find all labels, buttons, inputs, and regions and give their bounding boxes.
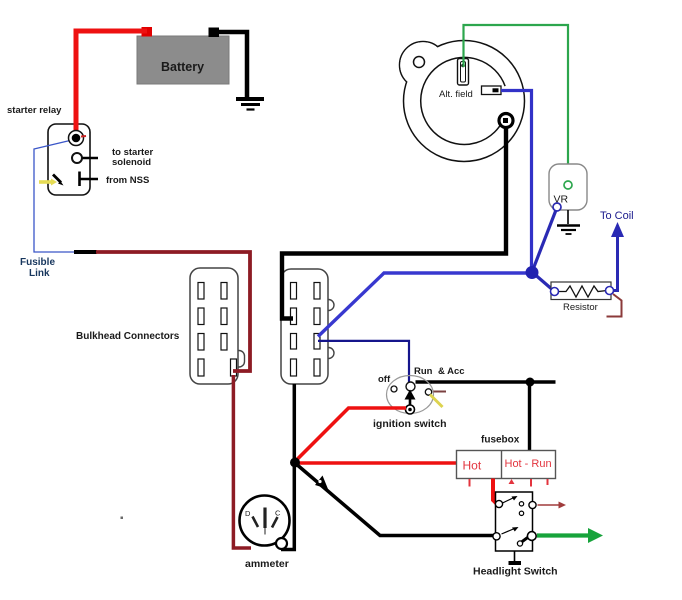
yellow arrow indicator [39, 179, 57, 186]
wire red battery to starter relay [76, 31, 147, 136]
label Alt. field [439, 89, 473, 100]
svg-text:C: C [275, 509, 281, 518]
fusebox terminal ticks [470, 479, 548, 487]
svg-text:D: D [245, 509, 251, 518]
voltage regulator VR [549, 164, 587, 210]
label Hot - Run [505, 458, 552, 470]
svg-text:Run: Run [414, 366, 433, 377]
ignition input terminal (bullseye) [406, 405, 415, 414]
label Headlight Switch [473, 566, 558, 578]
headlight switch park output terminal [529, 501, 536, 508]
svg-text:Fusible: Fusible [20, 257, 55, 268]
yellow acc pointer [430, 395, 443, 408]
resistor right terminal [606, 287, 614, 295]
junction node (blue) [526, 266, 539, 279]
bulkhead connector left tab [233, 351, 245, 368]
battery positive terminal [142, 27, 153, 37]
headlight switch headlamp output terminal [527, 532, 536, 541]
svg-text:Hot: Hot [463, 459, 482, 473]
wire blue alternator field to junction [501, 91, 532, 270]
svg-text:& Acc: & Acc [438, 366, 465, 377]
wire red fusebox to headlight [493, 479, 497, 504]
label To Coil [600, 210, 634, 222]
wire black bulkhead to junction to ammeter [281, 384, 294, 550]
alternator field connector tab [482, 86, 502, 95]
svg-text:Alt. field: Alt. field [439, 89, 473, 100]
bulkhead connector left pins [198, 283, 237, 377]
label to starter solenoid [112, 147, 153, 168]
ignition off terminal [391, 386, 397, 392]
bulkhead connector right tabs [323, 300, 334, 359]
wire red junction to ignition [295, 408, 406, 462]
svg-text:Bulkhead Connectors: Bulkhead Connectors [76, 331, 180, 342]
stray mark [121, 517, 124, 520]
svg-text:Resistor: Resistor [563, 302, 598, 313]
headlight switch top arrow [503, 496, 518, 503]
ignition run terminal [406, 382, 415, 391]
wire black to fusebox hot-run [528, 382, 531, 451]
label Bulkhead Connectors [76, 331, 180, 342]
label ignition switch [373, 418, 447, 430]
fusebox body [457, 451, 556, 479]
junction node (black, run wire) [526, 378, 535, 387]
ignition acc stub wire [434, 391, 447, 393]
wire blue fusible link from relay [34, 140, 76, 252]
starter relay switch lever [53, 175, 64, 186]
headlight switch input terminal top [495, 500, 502, 507]
battery B1 [137, 36, 229, 84]
alternator body [400, 41, 524, 162]
svg-text:Battery: Battery [161, 60, 204, 74]
headlight switch input terminal bottom [493, 533, 500, 540]
ignition switch body [387, 376, 434, 414]
starter relay solenoid terminal [72, 153, 98, 163]
ammeter left tick [253, 517, 259, 528]
label ammeter [245, 558, 289, 570]
svg-text:off: off [378, 374, 391, 385]
ammeter needle [263, 508, 266, 535]
svg-text:ammeter: ammeter [245, 558, 289, 570]
ammeter D mark [245, 509, 251, 518]
resistor left terminal [551, 288, 559, 296]
headlight switch pin small top [519, 502, 523, 506]
wire black fusible link segment [74, 250, 97, 254]
headlight switch pin small mid [519, 511, 523, 515]
ammeter output terminal [276, 538, 287, 549]
label Run & Acc [414, 366, 465, 377]
label off [378, 374, 391, 385]
wire black junction to headlight switch [295, 463, 494, 536]
label Fusible Link [20, 257, 55, 279]
junction node (black, ammeter) [290, 458, 300, 468]
bulkhead connector right pins [291, 283, 321, 377]
alternator mounting ear [400, 42, 447, 89]
arrowhead on black headlight wire [315, 476, 328, 490]
wire red junction to fusebox [295, 461, 457, 464]
ammeter right tick [272, 517, 278, 528]
wire black battery to ground [212, 32, 247, 97]
ammeter C mark [275, 509, 281, 518]
wire blue junction to bulkhead [318, 273, 532, 337]
wire blue resistor to coil with arrow [611, 222, 624, 291]
wire navy bulkhead to ignition Run [318, 341, 409, 382]
alternator field slot [458, 59, 469, 86]
svg-text:Link: Link [29, 268, 50, 279]
ammeter M1 [240, 496, 290, 546]
label Hot [463, 459, 482, 473]
ground (VR) [557, 210, 580, 234]
wire black horizontal ignition run [416, 380, 556, 383]
wire blue VR to junction [532, 210, 556, 272]
svg-text:starter relay: starter relay [7, 105, 62, 116]
label fusebox [481, 435, 520, 446]
VR field terminal [564, 181, 572, 189]
wire black alternator to bulkhead [282, 127, 506, 319]
wire green alternator to VR [464, 25, 569, 181]
headlight switch bottom arrow [502, 527, 519, 534]
label Resistor [563, 302, 598, 313]
alternator inner circle [421, 57, 505, 144]
alternator output terminal [499, 114, 513, 128]
starter relay NSS terminal [80, 172, 99, 187]
svg-text:from NSS: from NSS [106, 175, 149, 186]
battery negative terminal [209, 28, 220, 38]
wire dark red resistor stub [607, 294, 622, 317]
VR output terminal [553, 203, 561, 211]
bulkhead connector left body [190, 268, 238, 384]
svg-text:solenoid: solenoid [112, 157, 151, 168]
wire dark red fusible link to bulkhead [96, 252, 250, 371]
bulkhead connector right body [281, 269, 328, 384]
wire green headlamp output arrow [537, 528, 603, 543]
svg-text:fusebox: fusebox [481, 435, 520, 446]
resistor R1 [551, 282, 611, 300]
label starter relay [7, 105, 62, 116]
wire dark red park output arrow [538, 502, 567, 509]
headlight switch body [496, 492, 533, 551]
svg-text:Headlight Switch: Headlight Switch [473, 566, 558, 578]
svg-text:To Coil: To Coil [600, 210, 634, 222]
alternator mounting hole [414, 57, 425, 68]
wire dark red bulkhead to ammeter [233, 375, 251, 548]
headlight switch lever [517, 537, 529, 547]
label from NSS [106, 175, 149, 186]
svg-text:Hot - Run: Hot - Run [505, 458, 552, 470]
wire blue junction to resistor [532, 272, 554, 291]
ignition acc terminal [425, 389, 431, 395]
ignition rotor arrow [405, 390, 416, 411]
svg-text:ignition switch: ignition switch [373, 418, 447, 430]
starter relay battery terminal [69, 131, 87, 146]
starter relay K1 body [48, 124, 90, 195]
ground (headlight switch) [509, 551, 522, 565]
ground (battery) [236, 99, 264, 110]
